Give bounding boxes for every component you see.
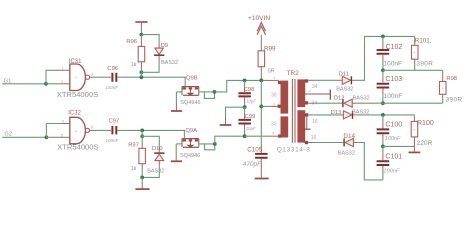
wire C98 bottom to junction [244, 103, 246, 108]
resistor R99 body [258, 51, 265, 67]
capacitor C98 bottom stub [244, 97, 246, 102]
junction R97/D10 gnd [140, 176, 144, 180]
resistor R97 top stub [141, 144, 143, 148]
diode D14 anode stub [353, 142, 357, 144]
svg-text:D10: D10 [152, 146, 163, 152]
svg-text:100nF: 100nF [383, 60, 402, 67]
capacitor C98 plates [238, 93, 251, 96]
TR2 secondary pin square S3 [305, 113, 308, 116]
capacitor C97 left stub [108, 129, 111, 131]
svg-text:100nF: 100nF [105, 138, 119, 143]
svg-text:10µF: 10µF [246, 126, 256, 131]
diode D14 triangle [345, 138, 353, 146]
capacitor C97 right stub [118, 129, 122, 131]
svg-text:XTR54000S: XTR54000S [57, 143, 98, 152]
diode D13 cathode stub [353, 114, 357, 116]
svg-text:16: 16 [312, 119, 318, 125]
wire C100 junction to R100 gnd column [383, 145, 414, 147]
diode D12 triangle [344, 99, 352, 107]
svg-text:100nF: 100nF [383, 169, 399, 175]
svg-text:390R: 390R [416, 61, 433, 68]
svg-text:BAS32: BAS32 [161, 60, 178, 66]
wire Q9A output riser to C99 rail [215, 136, 245, 144]
svg-text:IC32: IC32 [68, 110, 81, 116]
wire IC31 output to C96 [97, 76, 108, 78]
capacitor C99 plates [238, 120, 251, 124]
wire TR2 S3 to D13 [308, 114, 313, 116]
low rail wire to R98 [383, 102, 443, 104]
transformer TR2 secondary winding lower [297, 110, 305, 142]
junction D9 tee on R96 column [140, 70, 144, 74]
VCC stub [140, 22, 142, 29]
transformer TR2 primary winding lower [281, 116, 289, 137]
svg-text:BAS32: BAS32 [336, 87, 353, 93]
wire junction to R97 top [141, 136, 143, 144]
TR2 secondary crossed pin lower [306, 117, 308, 129]
capacitor C101 top stub [382, 146, 384, 152]
transistor Q9B symbol [182, 87, 199, 96]
svg-text:100nF: 100nF [105, 85, 119, 90]
ground symbol under R97/D10 [141, 184, 143, 189]
wire Q9B drain to junction [199, 91, 215, 93]
svg-text:Q9B: Q9B [186, 75, 198, 81]
wire Q9A drain-source loop [205, 144, 215, 150]
resistor R96 top stub [140, 41, 142, 46]
svg-text:C99: C99 [245, 114, 256, 120]
ground symbol under Q9A [175, 155, 177, 161]
wire junction up to IC31 pin1 [46, 70, 62, 84]
junction C98 bottom [243, 105, 247, 109]
svg-text:C97: C97 [109, 118, 120, 124]
TR2 secondary pin square S1 [305, 79, 308, 82]
svg-text:D11: D11 [339, 71, 349, 77]
diode D11 triangle [342, 76, 350, 84]
wire D10 bottom to gnd junction [142, 166, 159, 177]
wire D11 to top rail [356, 36, 415, 80]
svg-text:30: 30 [271, 92, 277, 98]
junction Q9B output [213, 90, 217, 94]
capacitor C99 column top [244, 107, 246, 113]
wire C96 to R96 junction and Q9B gate [121, 77, 185, 86]
wire R97 column with D10 tee [142, 130, 159, 146]
svg-text:1k: 1k [131, 166, 137, 172]
diode D10 bottom stub [158, 161, 160, 167]
svg-text:34: 34 [312, 84, 318, 90]
IC32 output bubble [85, 128, 89, 132]
resistor R97 body [139, 148, 146, 163]
TR2 pin3 stub [270, 135, 279, 137]
wire R99 bottom to rail [260, 72, 262, 80]
transistor Q9A symbol [182, 139, 199, 148]
wire IC32 output to C97 [97, 129, 108, 131]
svg-text:SQ4946: SQ4946 [180, 100, 200, 106]
TR2 secondary pin square S2 [305, 101, 308, 104]
NAND gate IC32 body [70, 117, 86, 144]
svg-text:R97: R97 [128, 142, 139, 148]
TR2 pin2 stub [271, 105, 279, 107]
junction D10 tee on R97 column [140, 134, 144, 138]
junction R99 bottom [259, 79, 263, 83]
TR2 pin2 square [278, 105, 281, 108]
IC32 output pin stub [90, 129, 97, 131]
junction C102 top [381, 35, 385, 39]
resistor R101 body [412, 45, 419, 59]
svg-text:+: + [75, 76, 78, 81]
svg-text:30: 30 [271, 121, 277, 127]
wire TR2 S4 to D14 [308, 142, 313, 144]
junction C100 bottom [381, 145, 385, 149]
svg-text:390R: 390R [446, 96, 463, 103]
svg-text:SQ4946: SQ4946 [180, 153, 200, 159]
svg-text:Q13314-3: Q13314-3 [277, 147, 311, 154]
capacitor C98 column top [244, 80, 246, 86]
wire D14 to bottom loop [357, 143, 383, 180]
junction C103 bottom / low rail [381, 101, 385, 105]
wire D12 to low rail [356, 102, 383, 104]
resistor R97 bottom stub [141, 164, 143, 170]
junction on G2 net [45, 135, 49, 139]
svg-text:Q9A: Q9A [185, 128, 197, 134]
wire R96 bottom [140, 68, 142, 73]
wire G1 to junction [2, 83, 46, 85]
diode D10 cathode bar [154, 152, 164, 154]
transformer TR2 primary winding upper [281, 81, 289, 114]
transformer TR2 core lines [292, 79, 295, 143]
wire C97 to R97 junction and Q9A gate [121, 130, 184, 138]
capacitor C101 bottom stub [382, 166, 384, 172]
diode D12 cathode bar [342, 99, 344, 107]
wire junction to IC32 pin5 [46, 136, 61, 138]
wire junction down to ground [141, 177, 143, 184]
wire junction up to IC32 pin4 [46, 124, 61, 138]
TR2 pin3 square [278, 134, 281, 137]
capacitor C102 top stub [382, 36, 384, 43]
svg-text:16: 16 [311, 135, 317, 141]
junction R97 top on net2 [140, 129, 144, 133]
capacitor C99 bottom stub [244, 125, 246, 130]
capacitor C96 left stub [108, 76, 111, 78]
svg-text:IC31: IC31 [69, 59, 82, 65]
junction on G1 net [44, 82, 48, 86]
resistor R100 bottom stub to ground [413, 137, 415, 152]
resistor R100 body [411, 121, 418, 136]
wire C98 junction to gnd branch [226, 107, 245, 117]
capacitor C105 top stub [260, 144, 262, 153]
wire Q9B output riser to top rail [215, 80, 245, 92]
capacitor C96 plates [112, 73, 116, 82]
capacitor C103 bottom stub [382, 89, 384, 95]
svg-text:0R: 0R [268, 68, 275, 74]
resistor R98 bottom stub [442, 94, 444, 98]
svg-text:D9: D9 [161, 43, 168, 49]
junction C98 top [243, 79, 247, 83]
diode D14 cathode bar [343, 139, 345, 147]
resistor R96 body [138, 46, 145, 61]
capacitor C102 bottom stub [382, 55, 384, 61]
diode D9 cathode bar [154, 54, 164, 56]
NAND gate IC31 body [70, 64, 86, 91]
svg-text:C103: C103 [385, 76, 402, 83]
wire R99 node down to TR2 pin2 and C105 [260, 80, 262, 143]
capacitor C103 top stub [382, 70, 384, 76]
diode D13 cathode bar [352, 111, 354, 119]
svg-text:+: + [75, 129, 78, 134]
diode D9 bottom stub [158, 56, 160, 62]
capacitor C102 plates [377, 50, 390, 54]
svg-text:C102: C102 [386, 44, 403, 51]
svg-text:BAS32: BAS32 [338, 151, 355, 157]
wire C99 junction to TR2 pin3 [245, 135, 270, 137]
capacitor C96 right stub [118, 76, 122, 78]
diode D11 anode stub [339, 79, 343, 81]
resistor R98 body [440, 82, 447, 95]
junction Q9A output [213, 142, 217, 146]
junction C99 bottom [243, 134, 247, 138]
svg-text:100nF: 100nF [385, 136, 401, 142]
wire TR2 S2 to D12 [308, 102, 314, 104]
capacitor C100 plates [377, 129, 390, 133]
wire junction to IC31 pin2 [46, 83, 62, 85]
svg-text:1k: 1k [131, 62, 137, 68]
svg-text:100nF: 100nF [384, 93, 403, 100]
svg-text:4: 4 [309, 90, 311, 94]
svg-text:+: + [413, 50, 416, 55]
resistor R100 top stub [413, 115, 415, 119]
TR2 pin1 square [278, 81, 281, 84]
wire C99 bottom to junction [244, 130, 246, 137]
IC32 pin 4 stub [62, 123, 70, 125]
diode D13 triangle [343, 111, 351, 119]
svg-text:R101,: R101, [415, 38, 432, 45]
svg-text:R100: R100 [417, 120, 434, 127]
diode D9 triangle [155, 48, 164, 54]
svg-text:R96: R96 [126, 39, 137, 45]
ground symbol under Q9B [175, 104, 177, 111]
capacitor C101 plates [377, 161, 390, 165]
junction VCC split [140, 33, 144, 37]
ground symbol under R100 [409, 151, 421, 153]
wire +10VIN to R99 [260, 35, 262, 46]
wire D9 bottom tee [141, 62, 159, 78]
wire D13 to C100 junction and R100 [357, 114, 414, 116]
svg-text:+: + [441, 86, 444, 91]
svg-text:TR2: TR2 [287, 70, 300, 77]
svg-text:BAS32: BAS32 [353, 96, 370, 102]
diode D10 top stub [158, 147, 160, 153]
svg-text:C96: C96 [107, 66, 118, 72]
wire G2 to junction [2, 136, 46, 138]
wire Q9A source to ground [176, 143, 182, 145]
ground symbol left of C98 [225, 117, 227, 125]
svg-text:R98: R98 [446, 76, 457, 82]
svg-text:C105: C105 [247, 147, 263, 154]
diode D10 triangle [155, 154, 164, 160]
svg-text:470pF: 470pF [243, 161, 262, 168]
svg-text:+: + [413, 127, 416, 132]
diode D9 top stub [158, 44, 160, 48]
junction C100 top [381, 113, 385, 117]
junction TR2 pin2 [259, 105, 263, 109]
wire junction to R96 top [140, 35, 142, 41]
IC31 pin 2 stub [62, 83, 70, 85]
diode D11 cathode stub [352, 79, 356, 81]
resistor R99 bottom stub [260, 67, 262, 73]
capacitor C100 top stub [382, 115, 384, 122]
wire junction to D9 top [141, 35, 159, 44]
TR2 secondary crossed pin [305, 93, 330, 95]
VCC supply bar over R96 [135, 21, 147, 23]
junction C102 bottom / mid rail [381, 68, 385, 72]
transformer TR2 secondary winding upper [297, 79, 305, 107]
svg-text:BAS32: BAS32 [147, 169, 164, 175]
resistor R96 bottom stub [140, 62, 142, 68]
transformer TR2 pin1 stub [263, 79, 279, 81]
svg-text:C100: C100 [385, 122, 402, 129]
capacitor C105 bottom stub to ground [260, 159, 262, 178]
diode D12 anode stub [352, 102, 356, 104]
capacitor C100 bottom stub [382, 134, 384, 139]
primary top rail wire [245, 79, 263, 81]
resistor R101 top stub [414, 36, 416, 40]
ground symbol under C105 [255, 178, 269, 180]
resistor R101 bottom stub [414, 59, 416, 64]
wire Q9B source to ground [176, 91, 182, 93]
capacitor C103 plates [377, 84, 390, 88]
svg-text:R99: R99 [264, 45, 276, 52]
capacitor C105 plates [255, 154, 268, 158]
wire junction to TR2 pin2 [261, 105, 270, 107]
wire Q9B drain-source loop [204, 92, 214, 99]
resistor R99 top stub [260, 46, 262, 51]
svg-text:C101: C101 [385, 153, 402, 160]
TR2 secondary pin square S4 [305, 141, 308, 144]
svg-text:220R: 220R [417, 140, 433, 147]
junction R96 bottom on net1 [140, 75, 144, 79]
svg-text:BAS32: BAS32 [352, 110, 369, 116]
diode D11 cathode bar [350, 76, 352, 84]
IC31 output bubble [85, 75, 89, 79]
mid rail wire [383, 69, 443, 71]
wire VCC to R96/D9 junction [140, 29, 142, 35]
svg-text:D12: D12 [334, 96, 345, 102]
svg-text:+10VIN: +10VIN [248, 15, 270, 22]
wire Q9A drain to junction [199, 143, 215, 145]
capacitor C97 plates [112, 126, 116, 134]
resistor R98 top stub [442, 70, 444, 76]
IC32 pin 5 stub [62, 136, 70, 138]
wire TR2 S1 to D11 [308, 79, 313, 81]
svg-text:D13: D13 [331, 110, 342, 116]
svg-text:XTR54000S: XTR54000S [57, 90, 98, 99]
IC31 output pin stub [90, 76, 97, 78]
IC31 pin 1 stub [62, 69, 70, 71]
svg-text:10µF: 10µF [246, 98, 256, 103]
svg-text:C98: C98 [244, 87, 255, 93]
svg-text:D14: D14 [343, 133, 355, 140]
wire R97 bottom to gnd junction [141, 169, 143, 177]
supply +10VIN arrow symbol [257, 22, 265, 31]
